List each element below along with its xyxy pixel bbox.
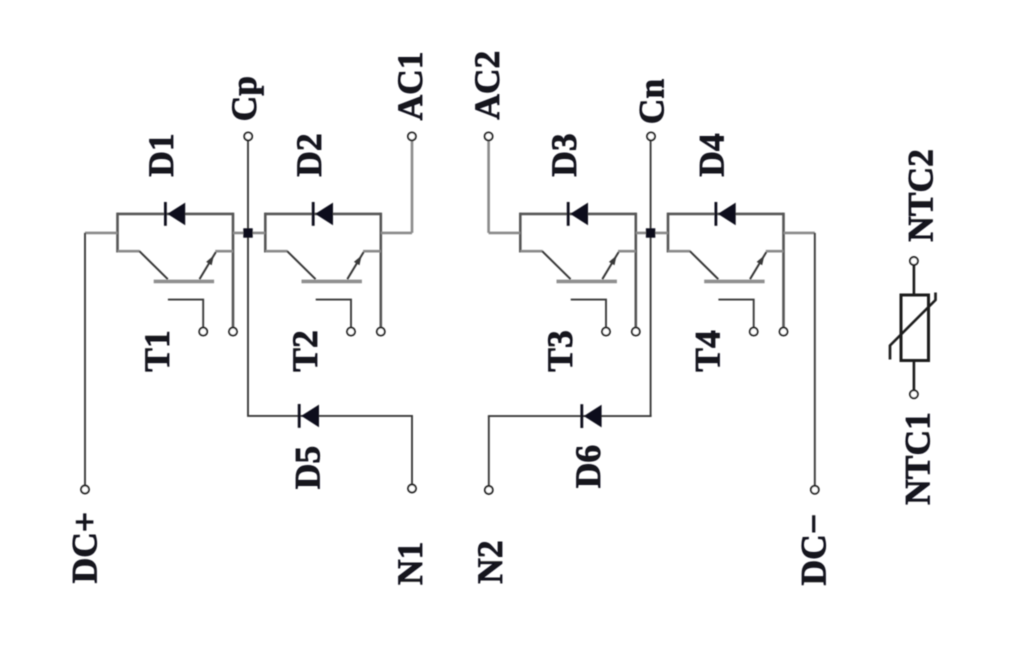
svg-text:AC2: AC2 [467,51,507,120]
svg-text:N1: N1 [390,542,430,585]
svg-text:DC−: DC− [793,514,833,586]
svg-text:T2: T2 [285,330,325,371]
svg-text:T4: T4 [688,330,728,372]
svg-text:D3: D3 [544,133,584,176]
svg-text:T3: T3 [540,330,580,371]
svg-text:NTC1: NTC1 [897,412,937,505]
svg-text:D6: D6 [568,445,608,488]
svg-text:Cp: Cp [224,76,264,121]
svg-text:Cn: Cn [632,79,672,125]
svg-text:D5: D5 [288,446,328,489]
svg-text:NTC2: NTC2 [901,149,941,242]
svg-text:AC1: AC1 [390,51,430,120]
svg-text:D4: D4 [692,133,732,177]
svg-text:D1: D1 [141,133,181,176]
svg-text:DC+: DC+ [64,512,104,584]
svg-text:T1: T1 [137,330,177,371]
svg-text:N2: N2 [470,540,510,583]
svg-text:D2: D2 [289,133,329,176]
